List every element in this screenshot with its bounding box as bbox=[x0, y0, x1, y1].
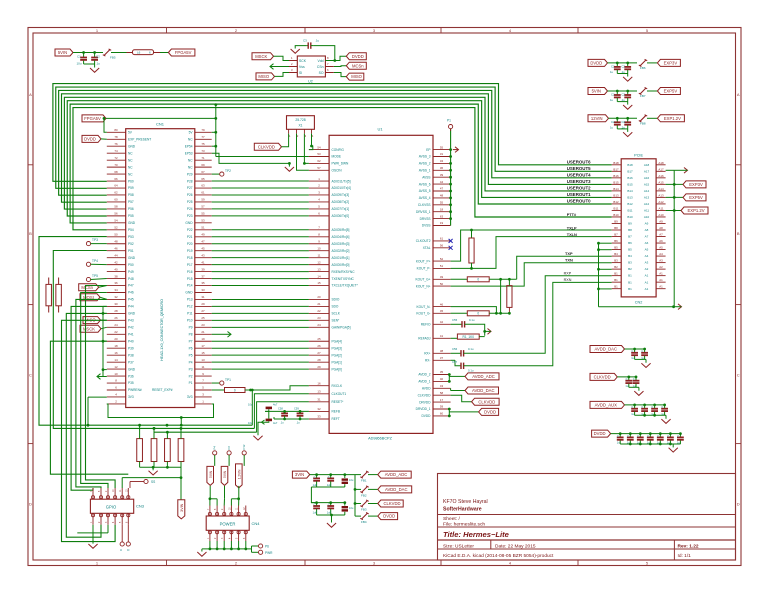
svg-text:P43: P43 bbox=[128, 319, 134, 323]
svg-text:ADIO6/Tx[0]: ADIO6/Tx[0] bbox=[332, 214, 350, 218]
junction bbox=[82, 51, 85, 54]
svg-text:71: 71 bbox=[201, 156, 205, 160]
svg-text:PGA[3]: PGA[3] bbox=[332, 346, 342, 350]
label MISO left bbox=[83, 317, 101, 324]
svg-text:12: 12 bbox=[114, 365, 118, 369]
svg-text:DVSS: DVSS bbox=[422, 224, 431, 228]
svg-text:P13: P13 bbox=[187, 298, 193, 302]
svg-text:41: 41 bbox=[440, 334, 444, 338]
svg-text:1u: 1u bbox=[610, 70, 614, 74]
wire bbox=[451, 395, 472, 402]
svg-text:C2: C2 bbox=[611, 93, 615, 97]
svg-text:C: C bbox=[314, 503, 316, 507]
CN3 pins bbox=[92, 488, 94, 499]
svg-text:27: 27 bbox=[201, 309, 205, 313]
cap bank AVDD_AUX bbox=[590, 401, 625, 408]
svg-text:38: 38 bbox=[114, 274, 118, 278]
wire bbox=[334, 65, 347, 68]
svg-text:PWR: PWR bbox=[265, 551, 273, 555]
svg-text:53: 53 bbox=[201, 219, 205, 223]
svg-text:C2: C2 bbox=[611, 120, 615, 124]
svg-text:P3: P3 bbox=[189, 367, 193, 371]
wire line x50.4 to GPIO bbox=[50, 341, 128, 474]
svg-text:B13: B13 bbox=[627, 196, 633, 200]
wire pads to labels bbox=[214, 455, 216, 466]
svg-text:23: 23 bbox=[201, 323, 205, 327]
cap bank DVDD bbox=[592, 430, 611, 437]
wire REFB rail bbox=[265, 410, 309, 412]
svg-text:P58: P58 bbox=[128, 193, 134, 197]
label 3VIN bbox=[292, 471, 309, 478]
svg-text:KOUT_P-: KOUT_P- bbox=[417, 267, 431, 271]
svg-text:42: 42 bbox=[440, 320, 444, 324]
svg-text:11: 11 bbox=[317, 253, 320, 257]
svg-text:CN3: CN3 bbox=[136, 504, 145, 509]
svg-text:Title: Hermes−Lite: Title: Hermes−Lite bbox=[443, 530, 510, 539]
IC U1 AD9866 body bbox=[329, 135, 433, 433]
svg-text:C3: C3 bbox=[303, 39, 307, 43]
wire AVDD tie bbox=[448, 375, 450, 382]
svg-text:B3: B3 bbox=[614, 259, 618, 263]
svg-text:74: 74 bbox=[114, 149, 118, 153]
svg-text:Rev: 1.22: Rev: 1.22 bbox=[678, 543, 699, 549]
junction bbox=[470, 267, 473, 270]
svg-text:21: 21 bbox=[317, 302, 321, 306]
svg-text:1u: 1u bbox=[610, 98, 614, 102]
svg-text:C2: C2 bbox=[611, 65, 615, 69]
svg-text:P45: P45 bbox=[128, 298, 134, 302]
svg-text:70: 70 bbox=[114, 163, 118, 167]
svg-text:67: 67 bbox=[201, 170, 205, 174]
resistor bank R12-R15 bbox=[137, 439, 143, 462]
svg-text:1uF: 1uF bbox=[313, 511, 318, 515]
svg-text:OSCIN: OSCIN bbox=[332, 169, 343, 173]
svg-text:23: 23 bbox=[317, 316, 321, 320]
capacitors C16 C18 C20 bbox=[316, 503, 318, 506]
svg-text:46: 46 bbox=[440, 302, 444, 306]
svg-text:AVDD_AUX: AVDD_AUX bbox=[595, 403, 617, 408]
svg-text:U2: U2 bbox=[308, 80, 313, 84]
svg-text:58: 58 bbox=[440, 391, 444, 395]
svg-text:C: C bbox=[647, 434, 649, 438]
svg-text:C: C bbox=[328, 475, 330, 479]
capacitor C3 bbox=[307, 45, 309, 47]
wire rail taps bbox=[599, 242, 612, 244]
fuse F1 bbox=[104, 50, 110, 56]
svg-text:P2: P2 bbox=[227, 446, 231, 450]
svg-text:A11: A11 bbox=[659, 206, 664, 210]
wire bbox=[666, 210, 681, 212]
svg-text:SDIO: SDIO bbox=[332, 298, 340, 302]
svg-text:EXP1.2V: EXP1.2V bbox=[688, 208, 705, 213]
wire bbox=[666, 169, 675, 171]
svg-text:FB1: FB1 bbox=[361, 479, 367, 483]
svg-text:TP2: TP2 bbox=[225, 169, 231, 173]
svg-text:3VIN: 3VIN bbox=[295, 472, 304, 477]
svg-text:AVSS_6: AVSS_6 bbox=[419, 182, 431, 186]
junction bbox=[470, 229, 473, 232]
title block frame bbox=[438, 474, 736, 561]
svg-text:32: 32 bbox=[317, 407, 321, 411]
svg-text:B1: B1 bbox=[614, 285, 618, 289]
svg-text:P52: P52 bbox=[128, 242, 134, 246]
net arrow GND row bbox=[212, 333, 225, 335]
wire REFIO bbox=[465, 324, 485, 336]
svg-text:P41: P41 bbox=[128, 332, 134, 336]
svg-text:A1: A1 bbox=[645, 274, 649, 278]
svg-text:A12: A12 bbox=[644, 202, 650, 206]
wire TXP bbox=[517, 256, 612, 279]
connector CN4 POWER body bbox=[206, 516, 249, 530]
svg-text:ADIO0/Rx[0]: ADIO0/Rx[0] bbox=[332, 263, 350, 267]
svg-text:29: 29 bbox=[317, 365, 321, 369]
frame row tick marks bbox=[28, 164, 33, 166]
svg-text:10u: 10u bbox=[77, 62, 82, 66]
wire REFT left bbox=[273, 417, 275, 419]
svg-text:MODE: MODE bbox=[332, 155, 342, 159]
ferrites FB1-FB4 with labels bbox=[355, 474, 361, 476]
svg-text:USEROUT1: USEROUT1 bbox=[567, 192, 591, 197]
svg-text:P59: P59 bbox=[128, 186, 134, 190]
power branch DVDD to EXP3V with caps, ferrite FB6, ground bbox=[588, 59, 608, 66]
U2 right pins bbox=[325, 60, 333, 62]
svg-text:10u: 10u bbox=[248, 421, 253, 425]
svg-text:P18: P18 bbox=[187, 256, 193, 260]
label AVDD_ADC bbox=[465, 373, 499, 380]
wire bundle CN1 lower pins to GPIO bbox=[86, 286, 116, 489]
test point P1 bbox=[449, 125, 453, 129]
svg-text:SO: SO bbox=[319, 71, 324, 75]
test point TP2 bbox=[212, 173, 220, 175]
connector CN1 body and pins bbox=[126, 129, 195, 408]
net arrow gnd bbox=[97, 374, 101, 380]
svg-text:GND: GND bbox=[128, 144, 136, 148]
svg-text:54: 54 bbox=[114, 219, 118, 223]
svg-text:45: 45 bbox=[440, 309, 444, 313]
svg-text:B1: B1 bbox=[628, 280, 632, 284]
svg-text:A13: A13 bbox=[644, 196, 650, 200]
svg-text:ADIO8/Tx[2]: ADIO8/Tx[2] bbox=[332, 200, 350, 204]
svg-text:76: 76 bbox=[114, 142, 118, 146]
svg-text:C: C bbox=[328, 503, 330, 507]
svg-text:ADIO3/Rx[3]: ADIO3/Rx[3] bbox=[332, 242, 350, 246]
ground bbox=[331, 515, 333, 523]
svg-text:B4: B4 bbox=[628, 254, 632, 258]
wire KOUT_G+ net bbox=[451, 278, 468, 280]
wire pin ties bbox=[210, 498, 217, 500]
svg-text:P15: P15 bbox=[187, 277, 193, 281]
svg-text:PGA[2]: PGA[2] bbox=[332, 353, 342, 357]
svg-text:62: 62 bbox=[317, 159, 321, 163]
pads P6 PWR bbox=[251, 546, 253, 549]
svg-text:13: 13 bbox=[201, 358, 205, 362]
wire to RXCLK bbox=[252, 386, 309, 390]
svg-text:RXP: RXP bbox=[564, 271, 572, 275]
svg-text:ADIO5/Rx[5]: ADIO5/Rx[5] bbox=[332, 228, 350, 232]
svg-text:RESET*: RESET* bbox=[332, 400, 345, 404]
svg-text:P4: P4 bbox=[189, 360, 193, 364]
svg-text:29: 29 bbox=[201, 302, 205, 306]
net arrow bbox=[678, 304, 682, 310]
svg-text:13: 13 bbox=[317, 267, 321, 271]
svg-text:A2: A2 bbox=[659, 265, 663, 269]
svg-text:P28: P28 bbox=[187, 179, 193, 183]
svg-text:AVDD_1: AVDD_1 bbox=[418, 380, 430, 384]
svg-text:RXEN/RXSYNC: RXEN/RXSYNC bbox=[332, 270, 356, 274]
resistor R10 bbox=[467, 311, 489, 316]
svg-text:A17: A17 bbox=[644, 169, 650, 173]
svg-text:P46: P46 bbox=[128, 291, 134, 295]
svg-text:35: 35 bbox=[201, 281, 205, 285]
U1 left pins with numbers and names bbox=[309, 149, 329, 151]
svg-text:Id: 1/1: Id: 1/1 bbox=[678, 553, 692, 559]
IC U2 body bbox=[297, 56, 325, 77]
label EXP5V bbox=[683, 194, 706, 201]
svg-text:GAIN/PGA[5]: GAIN/PGA[5] bbox=[332, 326, 351, 330]
wire MODE net to U1 bbox=[216, 156, 309, 158]
wire CN3 bottom gnd bbox=[92, 525, 94, 544]
wire CN1 pin79 to column bbox=[212, 131, 216, 133]
svg-text:P11: P11 bbox=[187, 312, 193, 316]
svg-text:PWREN#: PWREN# bbox=[128, 388, 142, 392]
wire R15 bottom to 3VIN label bbox=[180, 462, 182, 500]
svg-text:.1u: .1u bbox=[96, 62, 101, 66]
svg-text:GND: GND bbox=[128, 256, 136, 260]
svg-text:AVDD: AVDD bbox=[422, 387, 431, 391]
svg-text:60: 60 bbox=[440, 412, 444, 416]
svg-text:ADIO4/Rx[4]: ADIO4/Rx[4] bbox=[332, 235, 350, 239]
svg-text:15: 15 bbox=[317, 281, 321, 285]
power label FPGA5V bbox=[168, 49, 195, 56]
svg-text:P56: P56 bbox=[128, 207, 134, 211]
wire gnd branch bbox=[288, 163, 290, 166]
svg-text:55: 55 bbox=[440, 201, 444, 205]
svg-text:KOUT_N+: KOUT_N+ bbox=[416, 284, 431, 288]
svg-text:A11: A11 bbox=[644, 209, 649, 213]
no-connect CLKOUT2 bbox=[449, 239, 453, 243]
svg-text:File: hermeslite.sch: File: hermeslite.sch bbox=[443, 522, 485, 528]
junction bbox=[180, 416, 183, 419]
svg-text:C: C bbox=[661, 405, 663, 409]
svg-text:1uF: 1uF bbox=[327, 483, 332, 487]
svg-text:A15: A15 bbox=[644, 182, 650, 186]
resistor R7 bbox=[471, 230, 473, 238]
svg-text:B9: B9 bbox=[628, 222, 632, 226]
wire bbox=[295, 46, 307, 49]
cap bank CLKVDD bbox=[590, 373, 617, 380]
wire KOUT_N- bbox=[451, 307, 497, 314]
svg-text:50: 50 bbox=[440, 282, 444, 286]
svg-text:59: 59 bbox=[201, 198, 205, 202]
wire X1 pin2 OSCIN bbox=[297, 134, 309, 171]
svg-text:AVDD_2: AVDD_2 bbox=[418, 373, 430, 377]
svg-text:32: 32 bbox=[114, 295, 118, 299]
svg-text:P55: P55 bbox=[128, 214, 134, 218]
svg-text:AVDD_DAC: AVDD_DAC bbox=[385, 487, 408, 492]
svg-text:DVDD: DVDD bbox=[383, 514, 395, 519]
svg-text:0: 0 bbox=[234, 388, 236, 392]
wire DVDD tie bbox=[448, 409, 450, 416]
svg-text:AVSS_2: AVSS_2 bbox=[419, 162, 431, 166]
svg-text:DVDD: DVDD bbox=[590, 61, 602, 66]
svg-text:P57: P57 bbox=[128, 200, 134, 204]
svg-text:CLKVDD: CLKVDD bbox=[478, 399, 495, 404]
svg-text:P19: P19 bbox=[187, 249, 193, 253]
svg-text:CSn: CSn bbox=[317, 65, 324, 69]
wire PWREN stub bbox=[88, 396, 107, 398]
svg-text:73: 73 bbox=[201, 149, 205, 153]
svg-text:Vdd: Vdd bbox=[317, 59, 323, 63]
svg-text:21: 21 bbox=[201, 330, 205, 334]
cap bank AVDD_DAC bbox=[590, 346, 625, 353]
svg-text:80: 80 bbox=[114, 128, 118, 132]
svg-text:68: 68 bbox=[114, 170, 118, 174]
svg-text:5VIN: 5VIN bbox=[209, 470, 213, 478]
svg-text:10u: 10u bbox=[349, 478, 354, 482]
connector CN2 PCIE body bbox=[621, 159, 656, 297]
svg-text:B6: B6 bbox=[614, 239, 618, 243]
svg-text:P21: P21 bbox=[187, 235, 193, 239]
wire bbox=[334, 73, 347, 77]
svg-text:SEN*: SEN* bbox=[332, 319, 341, 323]
svg-text:NC: NC bbox=[128, 165, 133, 169]
svg-text:61: 61 bbox=[201, 191, 205, 195]
svg-text:A3: A3 bbox=[659, 259, 663, 263]
svg-text:D: D bbox=[29, 502, 32, 507]
svg-text:A18: A18 bbox=[644, 163, 650, 167]
svg-text:P2: P2 bbox=[189, 374, 193, 378]
svg-text:AVDD_DAC: AVDD_DAC bbox=[595, 347, 618, 352]
svg-text:P6: P6 bbox=[265, 545, 269, 549]
wire row1 bottom rail bbox=[311, 486, 344, 488]
svg-text:24: 24 bbox=[114, 323, 118, 327]
svg-text:EP53: EP53 bbox=[185, 151, 193, 155]
svg-text:DRVSS: DRVSS bbox=[420, 217, 431, 221]
svg-text:FB3: FB3 bbox=[361, 508, 367, 512]
svg-text:SDO: SDO bbox=[332, 305, 339, 309]
wire resistor bottoms rail bbox=[140, 466, 181, 468]
svg-text:A8: A8 bbox=[645, 228, 649, 232]
svg-text:FPGA5V: FPGA5V bbox=[175, 50, 192, 55]
svg-text:41: 41 bbox=[201, 260, 205, 264]
svg-text:26: 26 bbox=[114, 316, 118, 320]
svg-text:35: 35 bbox=[440, 370, 444, 374]
svg-text:.1u: .1u bbox=[280, 421, 284, 425]
svg-text:39: 39 bbox=[440, 173, 444, 177]
svg-text:25: 25 bbox=[317, 337, 321, 341]
capacitor C60 polarized bbox=[266, 407, 272, 410]
wire KOUT_P+ to TXLP bbox=[451, 230, 612, 261]
svg-text:10: 10 bbox=[317, 246, 321, 250]
svg-text:P60: P60 bbox=[128, 179, 134, 183]
svg-text:B: B bbox=[29, 231, 32, 236]
svg-text:3V3: 3V3 bbox=[187, 395, 193, 399]
svg-text:P48: P48 bbox=[128, 277, 134, 281]
wire bbox=[666, 196, 683, 198]
svg-text:22: 22 bbox=[114, 330, 118, 334]
svg-text:14: 14 bbox=[317, 274, 321, 278]
test point SS bbox=[130, 481, 144, 483]
label AVDD_DAC bbox=[465, 387, 499, 394]
svg-text:AVDD_ADC: AVDD_ADC bbox=[385, 472, 408, 477]
junction bbox=[333, 59, 336, 62]
svg-text:CN2: CN2 bbox=[635, 301, 643, 305]
wire bbox=[160, 52, 168, 54]
svg-text:GND: GND bbox=[128, 367, 136, 371]
no-connect XTAL bbox=[449, 246, 453, 250]
wire CN2 bottom gnd bbox=[599, 306, 674, 308]
svg-text:PWR_DWN: PWR_DWN bbox=[332, 162, 350, 166]
wire 3V3 loop outer bbox=[180, 418, 182, 426]
svg-text:33: 33 bbox=[317, 415, 321, 419]
svg-text:0.1u: 0.1u bbox=[469, 318, 475, 322]
svg-text:P36: P36 bbox=[128, 374, 134, 378]
svg-text:TP5: TP5 bbox=[92, 274, 98, 278]
svg-text:P25: P25 bbox=[187, 200, 193, 204]
svg-text:15: 15 bbox=[201, 351, 205, 355]
svg-text:10: 10 bbox=[114, 372, 118, 376]
svg-text:61: 61 bbox=[440, 237, 444, 241]
svg-text:14: 14 bbox=[114, 358, 118, 362]
net arrow EP bbox=[455, 147, 459, 153]
capacitor C59 bbox=[297, 412, 304, 414]
svg-text:0.1u: 0.1u bbox=[468, 347, 474, 351]
label EXP1.2V bbox=[681, 207, 708, 214]
svg-text:B3: B3 bbox=[628, 261, 632, 265]
svg-text:A7: A7 bbox=[659, 233, 663, 237]
test point TP5 bbox=[86, 277, 90, 281]
svg-text:MCSn: MCSn bbox=[352, 63, 364, 68]
svg-text:17: 17 bbox=[440, 398, 444, 402]
svg-text:ADIO9/Tx[3]: ADIO9/Tx[3] bbox=[332, 193, 350, 197]
svg-text:P29: P29 bbox=[187, 172, 193, 176]
svg-text:55: 55 bbox=[201, 212, 205, 216]
svg-text:REFB: REFB bbox=[332, 410, 341, 414]
svg-text:27: 27 bbox=[317, 351, 321, 355]
svg-text:43: 43 bbox=[440, 384, 444, 388]
svg-text:A5: A5 bbox=[659, 246, 663, 250]
wire 3VIN to GPIO bbox=[122, 477, 181, 479]
svg-text:B18: B18 bbox=[613, 161, 619, 165]
frame column tick marks bbox=[166, 28, 168, 34]
capacitor C1 bbox=[83, 53, 85, 58]
svg-text:P9: P9 bbox=[189, 326, 193, 330]
wire bbox=[111, 52, 131, 54]
svg-text:RX-: RX- bbox=[425, 359, 431, 363]
svg-text:53: 53 bbox=[317, 152, 321, 156]
svg-text:KiCad E.D.A. kicad (2014-08-0: KiCad E.D.A. kicad (2014-08-05 BZR 5054)… bbox=[443, 553, 554, 559]
wire bbox=[274, 56, 290, 60]
svg-text:22: 22 bbox=[317, 309, 321, 313]
svg-text:NC: NC bbox=[188, 165, 193, 169]
svg-text:CLKOUT2: CLKOUT2 bbox=[416, 239, 431, 243]
svg-text:40: 40 bbox=[440, 377, 444, 381]
svg-text:EXP5V: EXP5V bbox=[689, 195, 703, 200]
svg-text:MSCK: MSCK bbox=[255, 54, 267, 59]
svg-text:P5: P5 bbox=[189, 353, 193, 357]
svg-text:P22: P22 bbox=[187, 228, 193, 232]
svg-text:B17: B17 bbox=[627, 169, 633, 173]
svg-text:A6: A6 bbox=[659, 239, 663, 243]
wire 3V3 loop inner bbox=[107, 404, 214, 418]
wire EP53 to PWR_DWN net bbox=[212, 153, 290, 163]
power label 5VIN bbox=[55, 49, 73, 56]
svg-text:A1: A1 bbox=[659, 272, 663, 276]
wire bbox=[275, 73, 290, 77]
svg-text:DVDD: DVDD bbox=[594, 431, 606, 436]
capacitor C58 bbox=[281, 412, 288, 414]
svg-text:A18: A18 bbox=[658, 161, 664, 165]
